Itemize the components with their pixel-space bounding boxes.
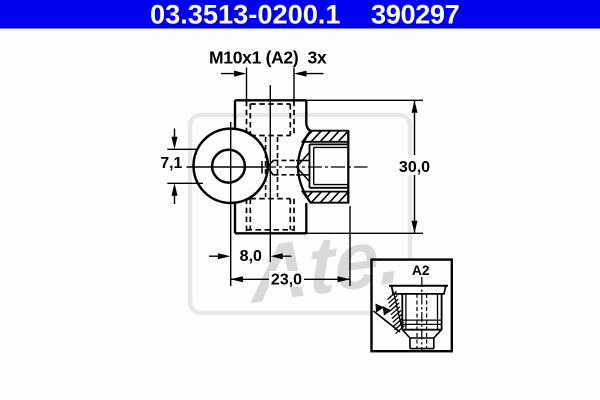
blue header bar <box>0 0 600 29</box>
dim 7,1 extension lines <box>167 149 203 183</box>
cone + nipple <box>402 330 441 349</box>
pointer triangles <box>376 304 392 316</box>
dim 23,0 right extension <box>349 206 351 286</box>
top port thread dashes <box>247 101 295 136</box>
dim 8,0 arrows <box>209 255 292 257</box>
dim 7,1 arrows <box>174 129 176 205</box>
svg-text:03.3513-0200.1: 03.3513-0200.1 <box>150 0 341 30</box>
inset box <box>372 260 452 352</box>
thread hatch <box>388 292 405 334</box>
dim 30,0 extension lines <box>306 100 423 233</box>
dim 30,0 line <box>414 100 416 233</box>
dim M10x1 arrow lines <box>221 73 324 75</box>
inset center line <box>421 277 423 350</box>
bottom port thread dashes <box>247 199 295 233</box>
flange <box>392 286 446 294</box>
hex top hatched band <box>303 131 349 142</box>
ring vertical axis <box>230 122 232 286</box>
drill cone tip <box>267 160 274 175</box>
A2 inset <box>372 260 452 352</box>
ring horizontal axis <box>187 166 263 168</box>
hex silhouette arc <box>298 131 311 203</box>
fitting top line <box>389 285 448 287</box>
hex body <box>402 294 441 330</box>
socket bore inner <box>314 147 349 184</box>
dim M10x1 extension lines <box>247 68 295 104</box>
hex bottom hatched band <box>303 192 349 203</box>
tick on axis <box>261 161 263 174</box>
right port axis dash-dot <box>262 166 368 168</box>
dashed passage verticals <box>266 137 278 197</box>
hex right edge <box>347 131 349 203</box>
A2 inset box background <box>372 260 452 352</box>
text white gaps <box>398 155 431 175</box>
ring outer circle <box>194 129 268 203</box>
main view linework <box>187 85 368 286</box>
svg-text:A2: A2 <box>412 263 430 278</box>
body vertical axis <box>269 85 271 262</box>
bore dashes <box>417 294 427 348</box>
body outline <box>235 100 311 233</box>
socket bore outer <box>310 144 349 187</box>
svg-text:7,1: 7,1 <box>160 155 182 172</box>
svg-text:30,0: 30,0 <box>399 159 430 176</box>
svg-text:23,0: 23,0 <box>271 271 302 288</box>
seat cone <box>297 152 310 181</box>
svg-text:M10x1 (A2) 3x: M10x1 (A2) 3x <box>209 47 327 67</box>
dimensions <box>167 68 423 287</box>
pointer line <box>374 311 401 332</box>
ring inner circle <box>212 150 245 183</box>
watermark rounded square <box>190 115 410 313</box>
svg-text:8,0: 8,0 <box>240 248 262 265</box>
svg-text:390297: 390297 <box>371 0 459 30</box>
dashed passage horizontals <box>274 160 299 174</box>
dim 23,0 line <box>230 278 350 280</box>
thread wall line <box>394 294 402 330</box>
